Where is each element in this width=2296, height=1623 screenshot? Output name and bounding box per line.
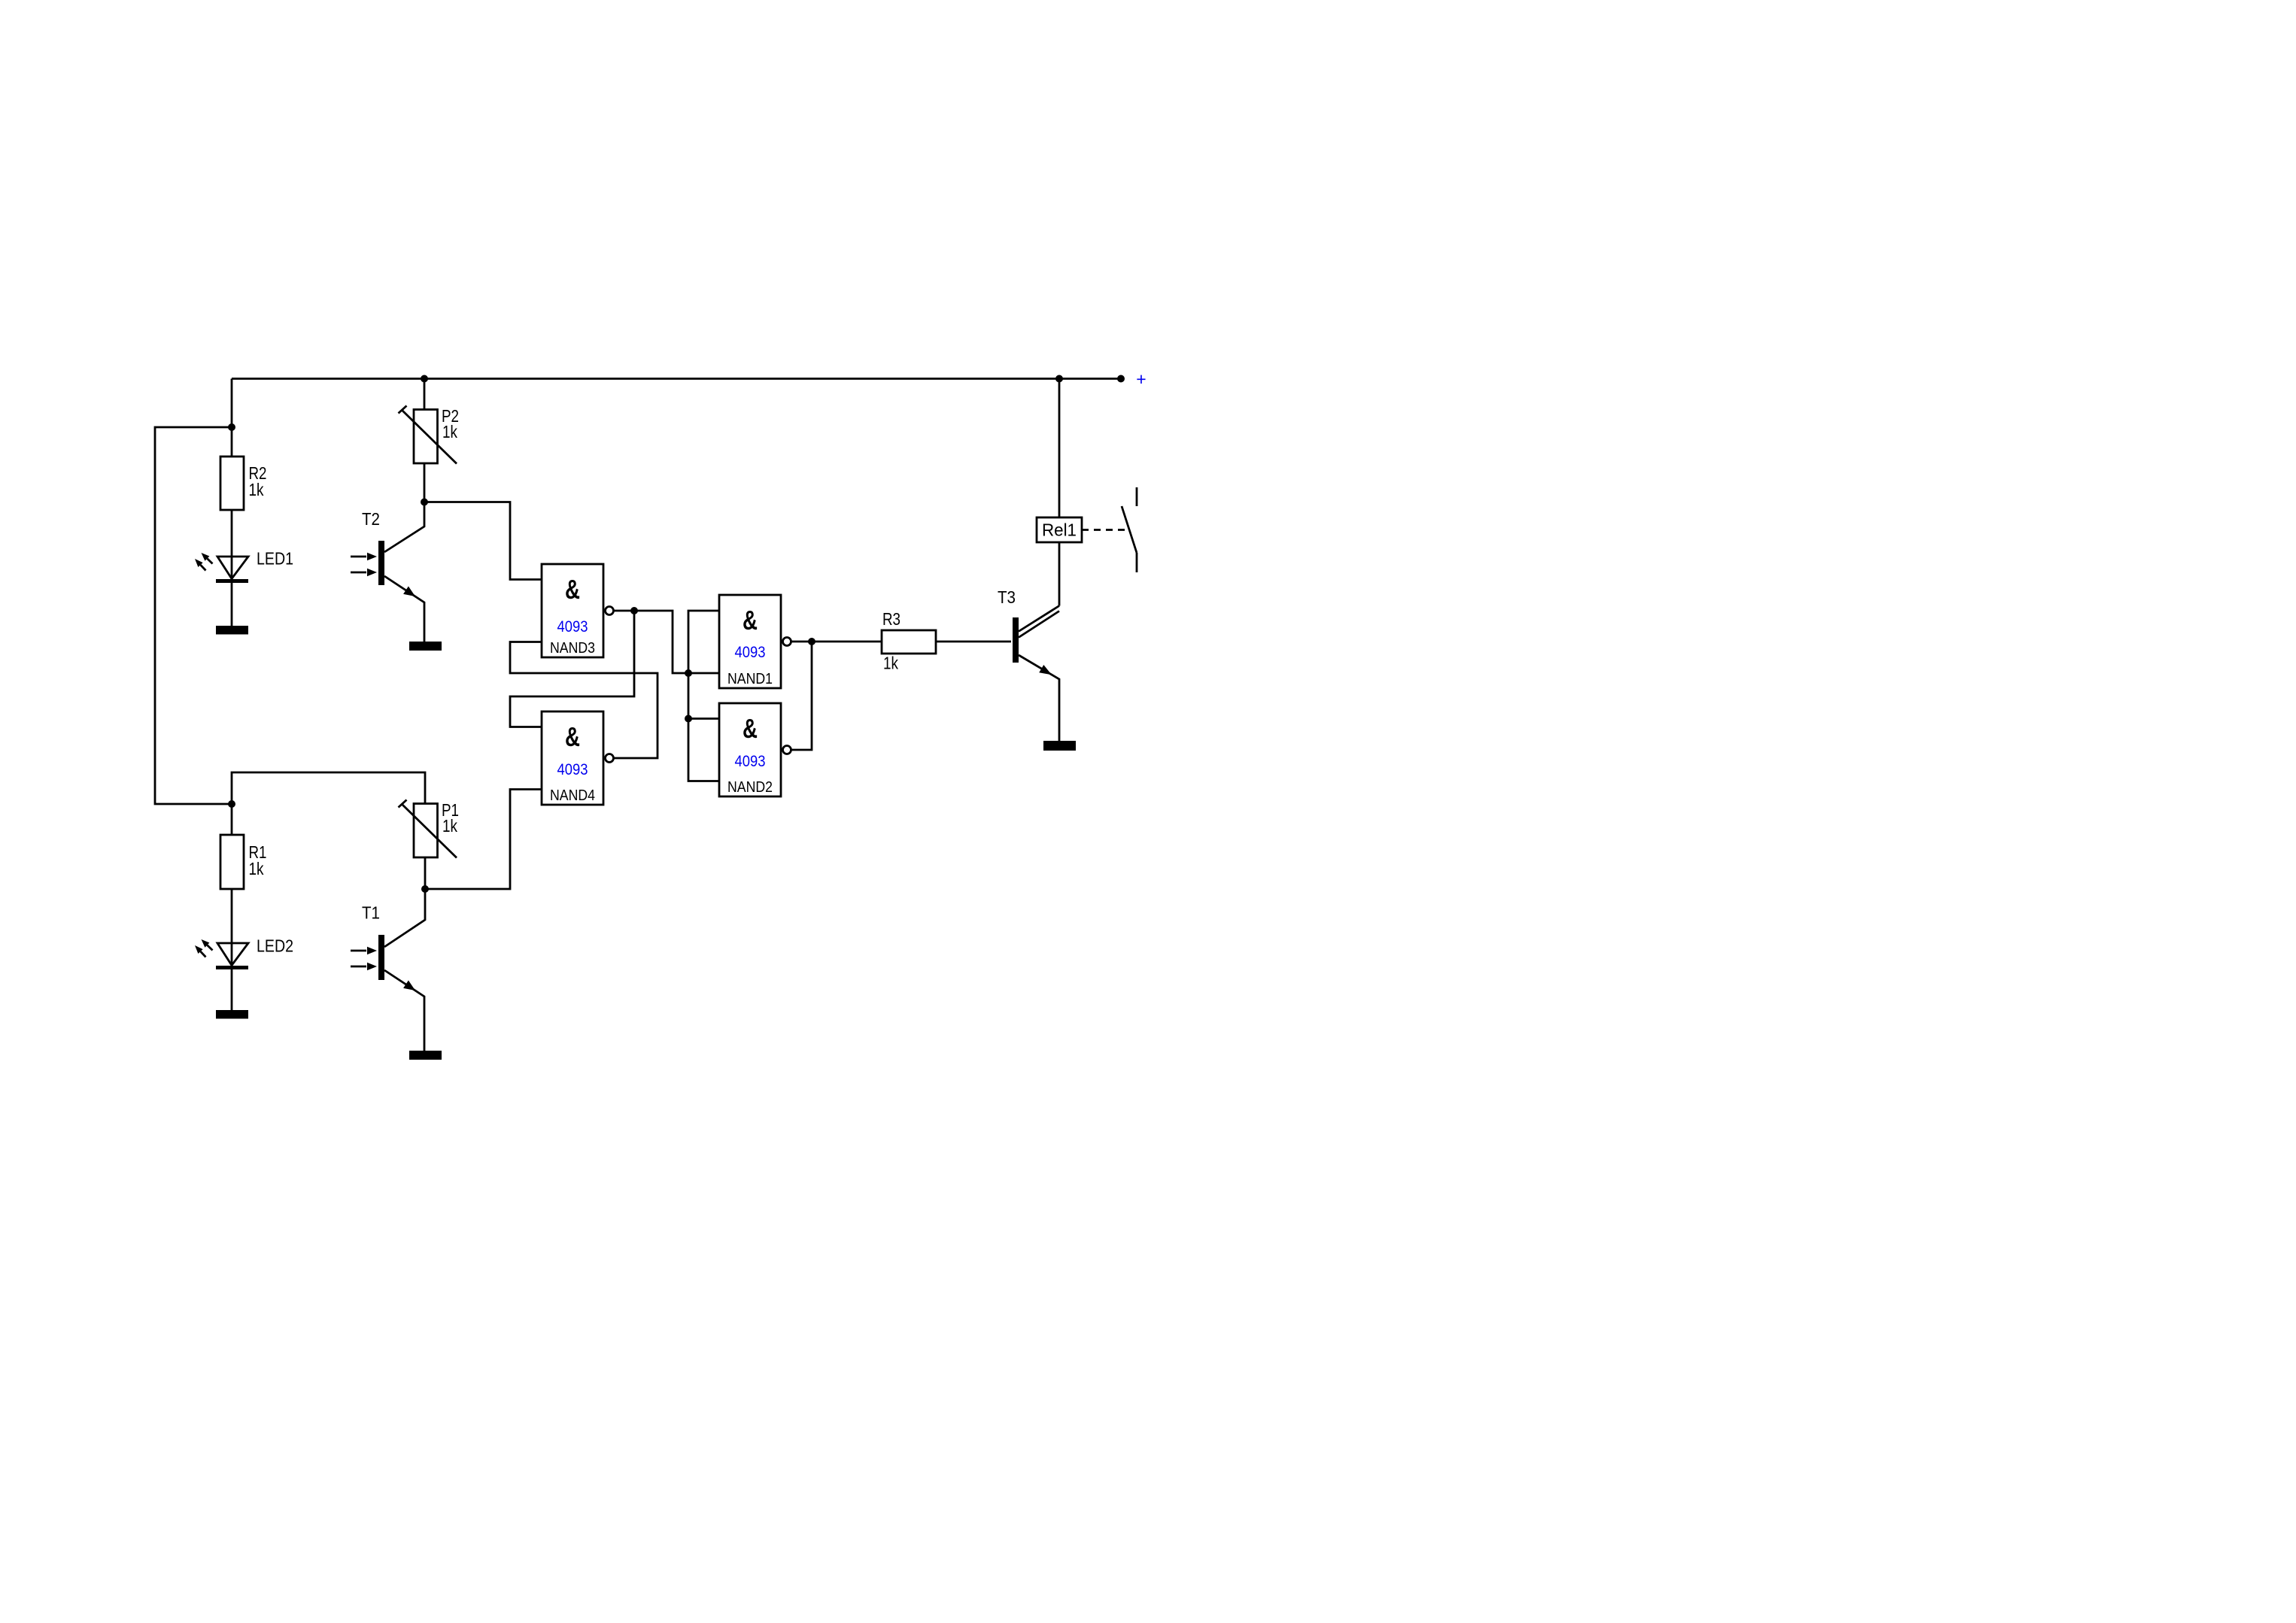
- svg-text:NAND2: NAND2: [727, 779, 773, 796]
- svg-text:R3: R3: [882, 609, 900, 629]
- svg-text:LED1: LED1: [257, 549, 293, 569]
- svg-text:1k: 1k: [442, 816, 457, 836]
- svg-text:4093: 4093: [557, 618, 588, 636]
- svg-text:Rel1: Rel1: [1042, 520, 1077, 540]
- svg-text:1k: 1k: [249, 480, 264, 499]
- svg-text:4093: 4093: [735, 753, 766, 770]
- svg-text:&: &: [743, 605, 758, 636]
- svg-text:LED2: LED2: [257, 936, 293, 956]
- svg-text:4093: 4093: [557, 761, 588, 778]
- svg-text:NAND1: NAND1: [727, 671, 773, 687]
- svg-text:T3: T3: [998, 587, 1016, 607]
- svg-text:1k: 1k: [249, 859, 264, 878]
- svg-text:+: +: [1136, 369, 1146, 389]
- svg-text:1k: 1k: [442, 422, 457, 441]
- svg-text:&: &: [565, 574, 580, 605]
- svg-text:T2: T2: [362, 509, 380, 529]
- svg-text:NAND3: NAND3: [550, 640, 595, 657]
- svg-text:&: &: [565, 721, 580, 752]
- svg-text:1k: 1k: [883, 654, 898, 673]
- svg-text:NAND4: NAND4: [550, 787, 595, 804]
- svg-text:T1: T1: [362, 903, 380, 923]
- svg-text:4093: 4093: [735, 644, 766, 661]
- svg-text:&: &: [743, 713, 758, 744]
